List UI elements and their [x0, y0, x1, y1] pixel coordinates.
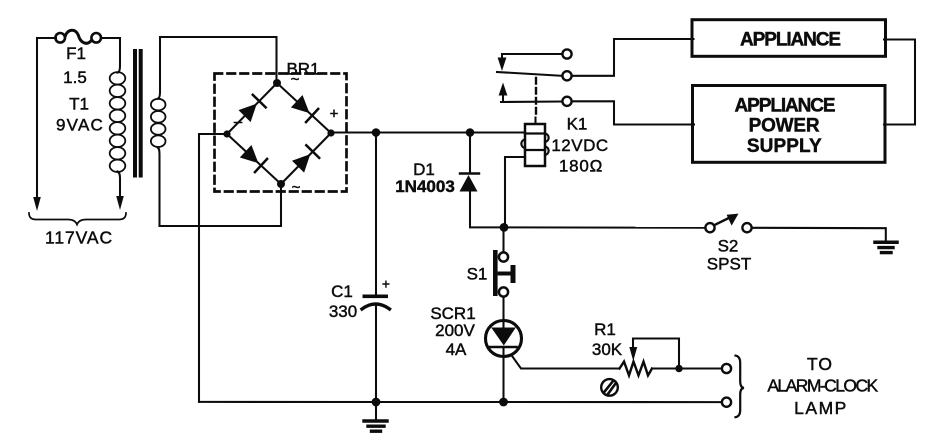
svg-text:F1: F1 — [66, 44, 86, 63]
node bridge top — [273, 79, 281, 87]
svg-text:~: ~ — [291, 71, 300, 88]
wire fuse to primary — [102, 37, 121, 39]
svg-text:SPST: SPST — [707, 255, 751, 274]
svg-text:180Ω: 180Ω — [559, 157, 603, 176]
svg-text:–: – — [234, 114, 243, 131]
SCR1 — [486, 321, 522, 357]
wire junction to S1 — [502, 227, 504, 252]
relay mechanical dashed link — [535, 78, 537, 117]
svg-text:C1: C1 — [331, 282, 353, 301]
wire coil top stub — [534, 118, 536, 125]
wire appliance right link — [884, 40, 915, 125]
wire S2 line — [504, 226, 706, 228]
svg-text:4A: 4A — [446, 340, 467, 359]
svg-text:APPLIANCE: APPLIANCE — [735, 96, 835, 117]
wire contact middle (armature) — [497, 72, 562, 76]
svg-text:30K: 30K — [592, 340, 623, 359]
node bridge right — [327, 129, 334, 136]
svg-text:12VDC: 12VDC — [551, 136, 608, 155]
svg-text:+: + — [382, 276, 390, 292]
terminal circle lamp bottom — [722, 398, 731, 407]
wire main positive rail — [331, 131, 525, 133]
arrow right 117VAC — [116, 196, 124, 210]
wire secondary top to bridge top — [160, 37, 277, 83]
svg-text:S1: S1 — [467, 265, 488, 284]
relay armature arrow down — [501, 54, 503, 59]
bridge diamond wires — [227, 83, 277, 134]
svg-text:1.5: 1.5 — [63, 68, 87, 87]
ground under C1 — [375, 402, 377, 419]
wire bridge minus to bottom rail — [199, 134, 227, 402]
node bridge left — [223, 130, 230, 137]
node SCR cathode bottom — [499, 398, 508, 407]
svg-text:S2: S2 — [718, 237, 739, 256]
node R1 wiper junction — [675, 365, 682, 372]
svg-text:200V: 200V — [435, 321, 475, 340]
transformer core — [133, 49, 137, 178]
relay K1 coil — [525, 124, 545, 166]
wire SCR gate — [511, 355, 619, 369]
svg-text:117VAC: 117VAC — [45, 228, 113, 248]
wire bottom rail — [199, 401, 722, 403]
wire coil second terminal — [505, 157, 525, 227]
R1 wiper arrow — [629, 347, 637, 361]
potentiometer R1 — [620, 362, 653, 376]
node C1 bottom — [372, 398, 381, 407]
svg-text:330: 330 — [329, 302, 357, 321]
svg-text:LAMP: LAMP — [794, 398, 848, 418]
ground right — [885, 228, 887, 240]
node bridge bottom — [277, 180, 285, 188]
fuse F1 — [55, 33, 65, 43]
diode BR1 lower-left — [240, 145, 259, 163]
wire contact top fixed — [502, 53, 562, 55]
wire left primary lead — [36, 38, 38, 197]
svg-text:SUPPLY: SUPPLY — [747, 136, 822, 157]
wire secondary bottom to bridge bottom — [160, 184, 282, 226]
node S2 junction — [500, 223, 509, 232]
wire relay to appliance power supply — [572, 101, 694, 124]
svg-text:ALARM-CLOCK: ALARM-CLOCK — [767, 376, 878, 396]
svg-text:APPLIANCE: APPLIANCE — [740, 29, 840, 50]
node D1 top — [466, 128, 475, 137]
wire contact bottom fixed — [501, 100, 562, 103]
capacitor C1 — [375, 133, 377, 295]
box APPLIANCE POWER SUPPLY — [693, 86, 886, 163]
diode D1 — [469, 133, 471, 174]
wire S1 to SCR1 — [502, 297, 504, 319]
svg-text:K1: K1 — [567, 115, 588, 134]
diode BR1 upper-right — [291, 95, 310, 113]
svg-text:+: + — [330, 106, 339, 123]
switch S2 — [705, 223, 714, 232]
brace 117VAC — [29, 213, 126, 225]
wire fuse left — [37, 37, 56, 39]
transformer T1 secondary winding — [158, 37, 160, 99]
arrow left 117VAC — [33, 197, 41, 211]
transformer T1 primary winding — [118, 38, 121, 73]
node C1 top — [372, 128, 381, 137]
brace lamp terminals — [736, 356, 745, 418]
screwdriver adjust symbol — [601, 379, 618, 396]
box APPLIANCE — [692, 20, 886, 57]
svg-text:POWER: POWER — [749, 116, 820, 137]
svg-text:1N4003: 1N4003 — [395, 177, 455, 196]
bridge BR1 dashed box — [215, 74, 347, 192]
svg-text:TO: TO — [807, 354, 833, 374]
diode BR1 lower-right — [292, 154, 310, 173]
svg-text:R1: R1 — [594, 320, 616, 339]
svg-text:9VAC: 9VAC — [56, 116, 104, 135]
relay armature arrow up — [499, 83, 508, 96]
wire relay to appliance box — [572, 39, 694, 76]
diode BR1 upper-left — [239, 104, 257, 123]
svg-text:~: ~ — [292, 179, 301, 196]
pushbutton S1 — [493, 250, 498, 296]
wire S2 to ground — [752, 227, 885, 229]
terminal circle lamp top — [722, 364, 731, 373]
contact circles — [562, 49, 571, 58]
svg-text:T1: T1 — [69, 95, 89, 114]
